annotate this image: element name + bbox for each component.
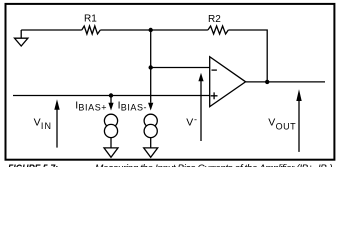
svg-text:IN: IN (41, 121, 52, 131)
node inverting input junction (149, 65, 153, 69)
caption (clipped at page bottom) (8, 164, 335, 175)
node top junction (149, 28, 153, 32)
svg-text:V: V (186, 117, 193, 129)
current source IBIAS- (144, 114, 157, 137)
resistor R2 (208, 14, 228, 34)
svg-text:-: - (194, 114, 197, 124)
ground (top-left) (15, 30, 28, 46)
wire top rail left (ground to R1) (21, 29, 82, 31)
node non-inverting junction (109, 93, 113, 97)
op-amp U1 (210, 57, 246, 107)
wire VIN / non-inverting input (13, 95, 210, 97)
current source IBIAS+ arrow (75, 96, 113, 113)
svg-text:V: V (268, 117, 275, 129)
ground (under IBIAS+) (104, 148, 118, 157)
wire inverting input (151, 67, 210, 69)
resistor R1 (82, 14, 101, 34)
VIN arrow (34, 99, 60, 147)
wire output (246, 81, 325, 83)
wire IBIAS+ to ground (110, 138, 112, 148)
ground (under IBIAS-) (144, 148, 158, 157)
node output junction (265, 80, 269, 84)
svg-text:BIAS+: BIAS+ (78, 102, 107, 112)
svg-text:OUT: OUT (276, 121, 297, 131)
VOUT arrow (268, 89, 301, 152)
svg-text:R2: R2 (208, 14, 221, 25)
wire IBIAS- to ground (150, 138, 152, 148)
V- supply arrow (186, 73, 203, 141)
wire top rail middle (R1 to R2) (100, 29, 208, 31)
current source IBIAS+ (104, 114, 117, 137)
svg-text:V: V (34, 117, 41, 129)
svg-text:FIGURE 5-7:: FIGURE 5-7: (8, 164, 58, 167)
wire feedback (R2 right end down to output node) (228, 30, 267, 82)
svg-text:R1: R1 (84, 14, 97, 25)
svg-text:Measuring the Input Bias Curre: Measuring the Input Bias Currents of the… (95, 164, 335, 167)
wire vertical inverting-node to IBIAS- (150, 30, 152, 103)
svg-text:BIAS-: BIAS- (121, 102, 147, 112)
current source IBIAS- arrow (118, 99, 154, 112)
